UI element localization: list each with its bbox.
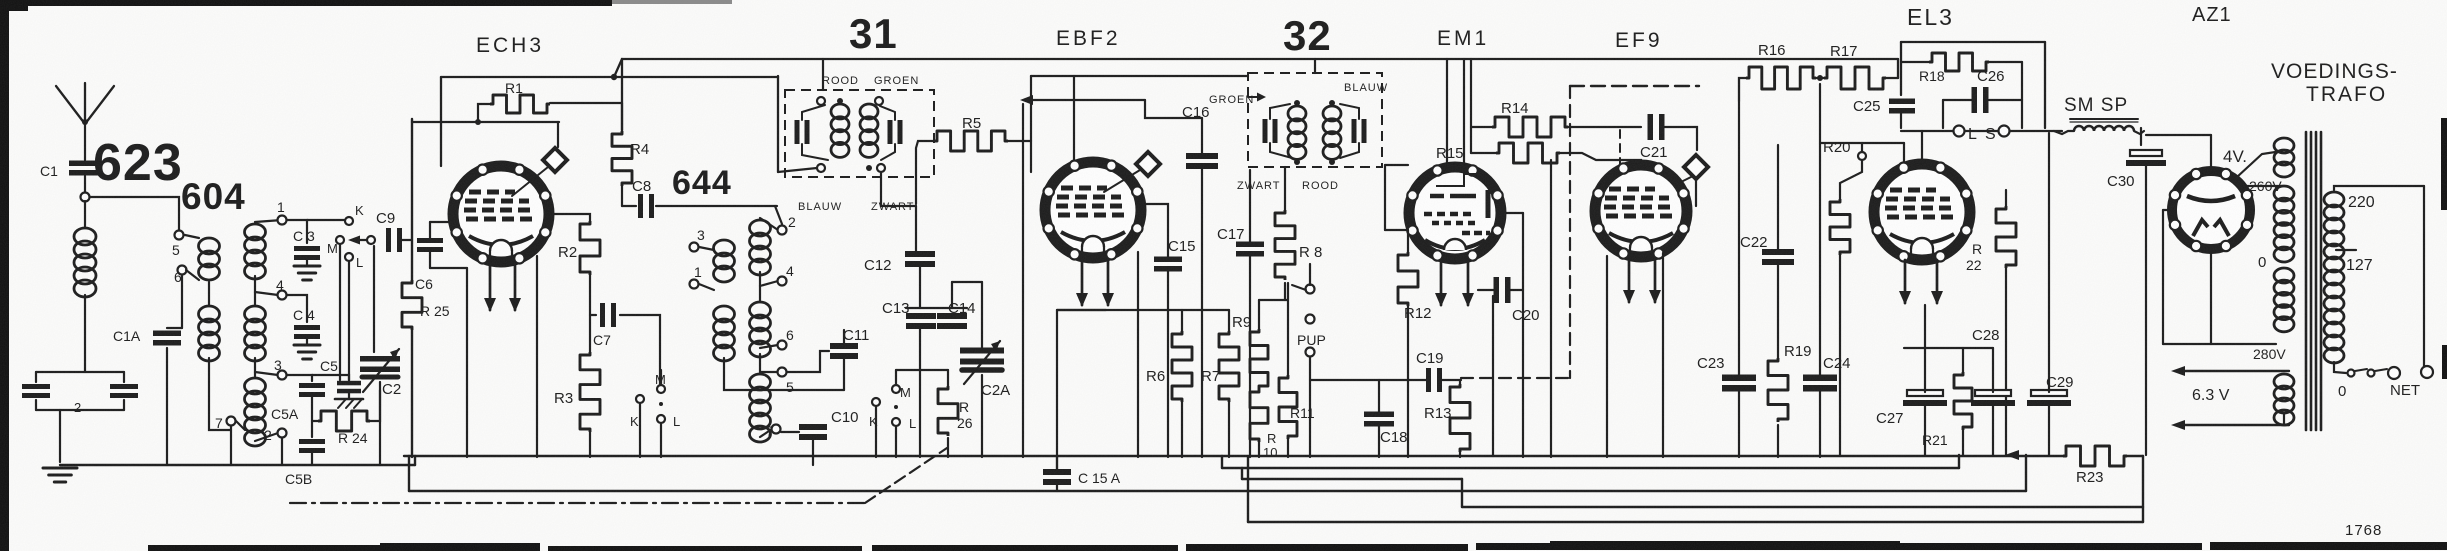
resistor R20	[1830, 199, 1850, 255]
frame antenna coil 623	[74, 228, 96, 245]
capacitor C5	[337, 381, 361, 386]
resistor R12	[1398, 252, 1418, 306]
wire bus fifth right	[1462, 506, 2143, 508]
wire C20 leads	[1478, 289, 1494, 291]
IF1 cap wires	[795, 131, 812, 133]
cathode arrows EBF2	[1081, 259, 1084, 305]
terminal 3 of 644	[690, 243, 699, 252]
wire C17 vertical	[1249, 170, 1251, 244]
resistor R24	[318, 411, 370, 431]
wire bus third right	[1222, 467, 1959, 469]
coil 604 sec upper	[245, 224, 266, 240]
IF2 right capacitor	[1352, 119, 1357, 143]
IF1 dashed box	[785, 90, 934, 177]
terminal 4	[278, 291, 287, 300]
resistor R9	[1250, 329, 1268, 389]
wire C23 vertical	[1738, 101, 1740, 377]
switch K M L left of 644	[636, 395, 644, 403]
capacitor C28	[1975, 390, 2011, 396]
wire C18 vertical	[1378, 380, 1380, 414]
wire C16 vertical	[1201, 118, 1203, 154]
wire C8 to 644 coil (BLAUW)	[656, 205, 777, 207]
wire R13 vertical	[1459, 380, 1461, 384]
wire EL3 plate stub	[1921, 131, 1923, 162]
resistor R6	[1172, 331, 1192, 402]
wire R9 top	[1258, 300, 1260, 329]
wire AZ1 plate right	[2248, 209, 2263, 211]
resistor R13	[1450, 384, 1470, 452]
EM1 innards	[1430, 194, 1476, 199]
scan artifact: bottom black edge strip	[148, 545, 538, 551]
scan artifact: left black edge bar	[0, 0, 9, 551]
wire R12 vertical	[1407, 230, 1409, 252]
IF2 left coil	[1288, 106, 1306, 121]
wire C5B to bottom	[311, 452, 313, 465]
tube EBF2	[1045, 162, 1141, 258]
dash-dot chassis line	[290, 502, 865, 504]
resistor R4	[612, 131, 632, 186]
wire secondary top	[2334, 186, 2424, 190]
wire second top line left	[441, 76, 614, 78]
wire C5A to R24 and C5B	[311, 396, 313, 437]
wire arrow R23 line	[2005, 450, 2019, 460]
wire 280V tap	[2162, 210, 2164, 344]
wire M L drops	[339, 245, 341, 380]
terminals L S	[1954, 126, 1965, 137]
wire top bus	[622, 58, 1898, 60]
wire C9 to vertical	[402, 239, 412, 241]
wire C2 up	[373, 246, 375, 352]
terminal 3	[278, 371, 287, 380]
cathode arrows EF9	[1628, 259, 1631, 302]
wire frame box to ground	[59, 410, 61, 462]
wire antenna to C1	[84, 124, 86, 160]
wire C15 vertical	[1140, 204, 1168, 258]
scan artifact: right edge marks	[2441, 118, 2447, 210]
resistor R23	[2063, 446, 2127, 466]
wire R5 left	[916, 141, 934, 204]
cathode arrows ECH3	[489, 262, 492, 310]
terminal 6 of 644	[778, 341, 787, 350]
diamond EF9	[1675, 176, 1693, 185]
terminal 2	[278, 429, 287, 438]
IF2 terminals	[1294, 100, 1300, 106]
wire ECH3 left drop	[466, 268, 468, 457]
terminal 7 of 644	[772, 425, 781, 434]
wire terminal2 down	[281, 438, 283, 465]
smoothing coil SM SP	[2074, 126, 2134, 131]
wire EF9 diamond stub	[1695, 179, 1697, 206]
EF9 dashed box	[1570, 85, 1699, 87]
wire R2 top	[549, 214, 590, 221]
644 left coil upper	[714, 240, 735, 256]
tap 127	[2336, 249, 2356, 251]
scan artifact: top black edge strip	[0, 0, 612, 6]
wire C10 leads	[781, 431, 799, 433]
terminal 1 of 644	[690, 280, 699, 289]
resistor R7	[1219, 331, 1239, 402]
capacitor C6	[417, 238, 443, 243]
wire 6.3V coil link	[2289, 371, 2294, 376]
wire R14 line	[1470, 59, 1472, 153]
transformer primary mid coil	[2274, 268, 2294, 283]
ground below C5 hatched	[348, 392, 350, 399]
wire SM SP to C30	[2140, 128, 2146, 140]
wire diamond top lead	[557, 122, 559, 147]
capacitor C23	[1722, 375, 1756, 382]
wire AZ1 filament right	[2243, 185, 2282, 187]
transformer primary top coil	[2274, 138, 2294, 153]
wire terminal4 to C4	[287, 295, 307, 322]
wire C19 leads	[1310, 379, 1428, 381]
wire EL3 box top	[1901, 41, 2045, 43]
capacitor C4	[294, 325, 320, 330]
capacitor C16	[1186, 153, 1218, 159]
switch PUP	[1306, 285, 1315, 294]
wire EBF2 top	[1073, 76, 1075, 160]
IF2 left capacitor	[1263, 119, 1268, 143]
wire C1 to node	[84, 176, 86, 193]
capacitor C3	[294, 246, 320, 251]
wire C12 vertical	[915, 206, 917, 252]
switch selector	[2348, 370, 2355, 377]
wire top bus left corner	[621, 59, 623, 130]
IF2 dashed box	[1248, 73, 1382, 167]
capacitor C22	[1762, 249, 1794, 255]
wire 644 left links	[699, 247, 714, 250]
wire R20 leads	[1840, 160, 1862, 199]
diamond tuning eye ECH3	[512, 167, 548, 196]
wire C22 vertical	[1777, 145, 1779, 252]
tube EM1	[1409, 167, 1501, 259]
heater arrow 6.3V top	[2177, 370, 2289, 372]
capacitor C13	[906, 313, 936, 319]
wire R4 to C8	[621, 186, 623, 206]
wire C30 down	[2145, 164, 2147, 455]
wire EM1 top feed	[1446, 59, 1448, 167]
wire R16 line corner	[1739, 78, 1746, 101]
wire EM1 left frame	[1385, 164, 1408, 166]
wire ECH3 right drop	[536, 256, 538, 457]
capacitor C20	[1494, 277, 1500, 303]
wire C21 right	[1664, 127, 1697, 150]
variable capacitor C2A	[960, 348, 1004, 354]
terminal 2 of 644	[778, 226, 787, 235]
wire node to frame coil	[84, 201, 86, 228]
wire BLAUW slope	[775, 206, 782, 224]
644 right coil lower	[750, 374, 771, 390]
wire bus bottom-most	[1248, 521, 2143, 523]
wire node to 604 transformer	[90, 197, 179, 231]
resistor R21	[1954, 372, 1972, 430]
capacitor C17	[1236, 242, 1264, 248]
terminal 6	[178, 266, 187, 275]
capacitor C1A	[153, 331, 181, 337]
wire C24 vertical	[1819, 84, 1821, 377]
cathode arrows EM1	[1440, 261, 1443, 305]
wire R7 vertical	[1228, 310, 1230, 331]
resistor R3	[580, 352, 600, 432]
IF1 right capacitor	[888, 120, 893, 144]
wire second top line right	[1031, 75, 1248, 77]
wire EBF2 cathode drop	[1056, 310, 1058, 472]
arrow at C9	[348, 236, 360, 245]
capacitor C15A	[1043, 469, 1071, 475]
wire EM1 right drop	[1522, 213, 1524, 457]
diamond EBF2	[1104, 170, 1140, 192]
wire R5 right to EBF2	[1008, 140, 1031, 142]
ground symbol left	[43, 467, 77, 470]
terminal 7	[227, 417, 236, 426]
wire IF1 feed	[822, 59, 824, 90]
antenna	[56, 86, 85, 124]
wire R15 line	[1471, 152, 1496, 154]
capacitor C7	[600, 303, 605, 327]
wire bus fourth short	[1242, 478, 1462, 480]
wire second line corner down	[777, 76, 779, 172]
frame tuning capacitor box	[36, 371, 124, 373]
wire R24 to C2 branch	[370, 390, 380, 421]
wire 604 primary link	[208, 282, 210, 306]
IF2 cap wires	[1270, 104, 1290, 119]
IF1 left capacitor	[795, 120, 800, 144]
capacitor C30	[2130, 150, 2162, 156]
resistor R19	[1768, 358, 1788, 422]
wire C25 down	[1900, 112, 1902, 128]
terminal 4 of 644	[778, 277, 787, 286]
IF1 right coil	[860, 104, 878, 119]
wire EBF2 grid line	[1024, 100, 1031, 141]
wire AZ1 cathode drop	[2210, 250, 2212, 344]
resistor R14	[1492, 117, 1568, 137]
wire switch right leads	[875, 407, 877, 457]
capacitor C27	[1907, 390, 1943, 396]
wire R11 link	[1287, 283, 1289, 375]
wire C2A vertical	[981, 282, 983, 350]
heater arrow 6.3V bottom	[2177, 424, 2289, 426]
capacitor C26	[1972, 87, 1978, 113]
resistor R2	[580, 221, 600, 275]
IF1 terminals	[817, 97, 825, 105]
wire bus second	[409, 490, 2026, 492]
IF2 feed wire	[1314, 59, 1316, 73]
wire C26 leads	[1943, 99, 1972, 101]
capacitor C18	[1364, 412, 1394, 418]
wire R1 left lead	[478, 104, 490, 122]
capacitor C14	[937, 313, 967, 319]
wire EBF2 grid drop	[1022, 104, 1024, 457]
capacitor C21	[1648, 114, 1654, 140]
wire R2-R3 link	[589, 275, 591, 352]
resistor R1	[490, 95, 550, 113]
wire ZWART drop	[881, 172, 916, 206]
capacitor C19	[1426, 368, 1431, 392]
resistor R26	[938, 386, 958, 436]
IF1 left coil	[831, 104, 849, 119]
wire EL3 grid line	[1820, 142, 1904, 144]
wire R10 bottom	[1258, 442, 1260, 457]
terminal 5 of 644	[778, 368, 787, 377]
wire R8 vertical	[1284, 167, 1286, 210]
wire R16-R17 junction	[1816, 77, 1824, 79]
wire AZ1 top	[2210, 135, 2212, 172]
terminal 1	[278, 216, 287, 225]
wire coil to frame cap box	[84, 295, 86, 372]
wire R1 right lead	[550, 102, 622, 104]
644 right coil upper	[750, 220, 771, 236]
capacitor C5A	[299, 383, 325, 388]
node terminal below C1	[81, 193, 90, 202]
wire R22 leads	[2005, 190, 2007, 206]
wire top-left ECH3 frame	[412, 121, 559, 123]
capacitor C25	[1889, 99, 1915, 105]
wire 644 right links	[760, 218, 778, 230]
wire C28 vertical	[1992, 348, 1994, 392]
wire C11 leads	[787, 351, 829, 372]
wire C13/C14 links	[906, 307, 967, 309]
wire bottom-left bus	[60, 464, 415, 466]
coil 604 primary lower	[199, 306, 220, 322]
tube AZ1	[2172, 171, 2250, 249]
wire AZ1 to 4V winding	[2237, 151, 2282, 177]
wire C7 leads	[590, 314, 596, 316]
wire C15A stubs	[1056, 457, 1058, 472]
wire C1A to bottom bus	[166, 348, 168, 465]
644 right coil middle	[750, 302, 771, 318]
coil 604 sec middle	[245, 306, 266, 322]
transformer core	[2305, 132, 2308, 430]
cathode arrows EL3	[1904, 260, 1907, 303]
resistor R10	[1250, 389, 1268, 442]
wire R26 leads	[947, 370, 949, 386]
wire C20 drop	[1492, 296, 1494, 456]
wire C2 down	[379, 382, 381, 465]
capacitor C11	[830, 343, 858, 349]
wire terminal6 down to C1A	[181, 274, 183, 328]
switch K M L right of 644	[872, 398, 880, 406]
wire R19 vertical	[1777, 425, 1779, 457]
resistor R22	[1996, 206, 2016, 268]
tube ECH3	[453, 166, 549, 262]
resistor R8	[1275, 210, 1295, 280]
capacitor C10	[799, 424, 827, 430]
transformer secondary coil	[2324, 192, 2344, 207]
resistor R18	[1929, 53, 1989, 71]
coil 604 sec lower	[245, 378, 266, 394]
transformer primary main coil	[2274, 186, 2294, 201]
644 left coil lower	[714, 306, 735, 322]
ground below C4	[306, 337, 308, 345]
wire terminal7 down	[230, 426, 232, 465]
capacitor C8	[638, 194, 643, 218]
wire vertical main left of ECH3	[411, 119, 413, 280]
wire PUP bottom	[1309, 357, 1311, 457]
resistor R11	[1279, 375, 1297, 439]
wire C27 vertical	[1924, 305, 1926, 392]
wire 604 sec links	[255, 220, 282, 222]
resistor R17	[1824, 67, 1886, 89]
variable capacitor C2	[360, 356, 400, 362]
transformer primary low coil	[2274, 374, 2294, 389]
tube EL3	[1874, 164, 1970, 260]
wire C29 vertical	[2048, 133, 2050, 392]
capacitor C5B	[299, 439, 325, 444]
ground below C3	[306, 258, 308, 266]
tube EF9	[1595, 165, 1687, 257]
switch K M L at 604	[345, 217, 353, 225]
capacitor C9	[386, 228, 391, 252]
wire EF9 drops	[1606, 256, 1608, 457]
wire LS line	[1901, 130, 1953, 132]
resistor R16	[1746, 67, 1816, 89]
resistor R25	[402, 280, 422, 330]
wire C6 stubs	[429, 222, 431, 240]
capacitor C12	[905, 251, 935, 257]
wire AZ1 left side	[2160, 210, 2211, 240]
coil 604 primary upper	[199, 238, 220, 254]
wire main bottom bus	[404, 455, 2063, 457]
wire terminal3 to C5/C5A	[287, 375, 312, 381]
resistor R5	[934, 131, 1008, 151]
capacitor C29	[2031, 390, 2067, 396]
IF2 right coil	[1323, 106, 1341, 121]
wire R18 leads	[1901, 61, 1929, 63]
terminal 5	[175, 231, 184, 240]
wire R21 vertical	[1962, 348, 1964, 372]
wire R6 vertical	[1181, 310, 1183, 331]
wire secondary bottom	[2334, 362, 2346, 373]
capacitor C24	[1803, 375, 1837, 382]
capacitor C15	[1154, 257, 1182, 263]
wire switch left leads	[639, 404, 641, 457]
resistor R15	[1496, 143, 1560, 163]
capacitor C1	[69, 161, 99, 167]
wire terminal1 to C3/K	[287, 220, 307, 243]
wire R6 R7 top rail	[1057, 309, 1229, 311]
